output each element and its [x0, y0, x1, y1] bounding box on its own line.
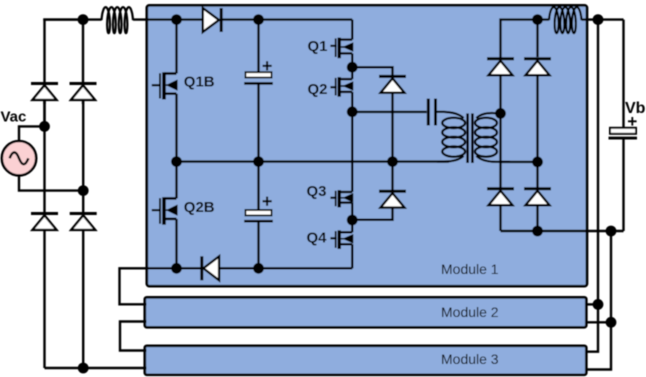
- label Vb: [625, 100, 646, 117]
- wire D2 anode to Q3-Q4 node: [352, 208, 392, 220]
- svg-text:Vac: Vac: [1, 109, 27, 126]
- label Q1B: [184, 74, 215, 91]
- wire Vac top lead: [19, 126, 45, 141]
- node bottom rail / Q2B: [171, 263, 182, 274]
- transformer T1 core: [468, 113, 473, 163]
- label Q2: [308, 81, 328, 98]
- node Vac+ to left leg: [39, 121, 50, 132]
- wire Vac bottom lead: [19, 175, 83, 190]
- wire cap to transformer primary top: [437, 112, 464, 118]
- wire left leg mid: [43, 100, 45, 212]
- diode D9 (output bridge upper-left): [487, 59, 514, 114]
- diode D8 (input bridge lower-right): [70, 214, 97, 369]
- wire Q2 node to resonant cap: [352, 111, 426, 113]
- node mid rail / Q1B-Q2B: [171, 156, 182, 167]
- wire out+ bus (x=598): [586, 20, 598, 352]
- label Q4: [307, 230, 328, 247]
- svg-text:Vb: Vb: [625, 100, 646, 117]
- capacitor C2: [244, 162, 273, 269]
- wire secondary bottom to node B: [500, 161, 538, 163]
- module 2 box: [145, 297, 587, 327]
- wire Q1B source to mid rail: [175, 94, 177, 162]
- transistor Q2: [330, 67, 352, 97]
- node Q1-Q2: [347, 62, 358, 73]
- svg-text:Module 3: Module 3: [441, 351, 499, 367]
- node top rail / right output leg: [532, 14, 543, 25]
- wire module 2 out-: [586, 321, 611, 323]
- capacitor C3 (series/blocking): [428, 99, 435, 126]
- node top rail / C1 leg: [253, 14, 264, 25]
- transistor Q1B: [152, 72, 177, 99]
- wire output bridge top rail: [501, 20, 550, 58]
- wire Q3 source to node: [351, 203, 353, 220]
- capacitor C1: [244, 20, 273, 162]
- svg-text:Q2: Q2: [308, 81, 328, 98]
- node Q2 source / resonant cap: [347, 106, 358, 117]
- svg-text:Module 2: Module 2: [441, 304, 499, 320]
- transistor Q4: [330, 220, 352, 249]
- svg-text:Module 1: Module 1: [441, 261, 499, 277]
- ac source Vac: [2, 141, 36, 175]
- diode D0 (boost series diode): [203, 8, 352, 32]
- wire bottom rail to module 3: [45, 367, 147, 369]
- transistor Q1: [330, 38, 352, 59]
- diode D1 (clamp upper): [379, 76, 406, 161]
- module 3 box: [145, 346, 587, 375]
- node bottom rail / C2: [253, 263, 264, 274]
- wire Q2B source to bottom rail: [175, 219, 177, 268]
- transformer T1 primary winding: [437, 118, 465, 162]
- node out- bus / module1: [606, 226, 617, 237]
- transistor Q3: [330, 190, 352, 207]
- wire Q2 node down to Q3 (crosses mid rail): [351, 112, 353, 192]
- wire battery to module1 out- rail: [622, 140, 624, 232]
- label Vac: [1, 109, 27, 126]
- wire bottom internal rail: [147, 267, 353, 269]
- battery Vb: [609, 117, 638, 140]
- wire Q1B drain: [175, 20, 177, 74]
- wire top rail out of module 1: [582, 18, 624, 20]
- diode D3 (freewheeling, pointing left): [202, 256, 219, 280]
- wire output bridge bottom rail: [501, 230, 624, 232]
- inductor L1 (input): [102, 7, 134, 33]
- wire left bridge leg: [45, 20, 84, 127]
- label Q2B: [184, 199, 215, 216]
- svg-text:Q2B: Q2B: [184, 199, 215, 216]
- wire top rail corner to Q1 drain: [351, 20, 353, 40]
- transistor Q2B: [152, 162, 177, 225]
- wire Q4 source to bottom rail: [351, 244, 353, 268]
- diode D7 (input bridge lower-left): [31, 214, 58, 369]
- node top rail / Q1B leg: [171, 14, 182, 25]
- diode D11 (output bridge upper-right): [524, 20, 551, 162]
- wire module 2 in- to module 3 in+: [120, 322, 147, 351]
- wire node A down (crosses secondary bottom wire): [499, 113, 501, 187]
- svg-text:Q1B: Q1B: [184, 74, 215, 91]
- node top rail / right bridge leg: [78, 14, 89, 25]
- wire Q1 source to node: [351, 53, 353, 67]
- node B secondary bottom: [532, 157, 543, 168]
- wire module 2 out+: [586, 303, 598, 305]
- node out+ bus / top rail: [593, 14, 604, 25]
- diode D6 (input bridge upper-right): [70, 20, 97, 104]
- node mid rail / C1-C2: [253, 156, 264, 167]
- node bottom rail / right leg: [532, 226, 543, 237]
- inductor L2 (output): [549, 7, 582, 33]
- svg-text:Q1: Q1: [308, 38, 328, 55]
- module 1 box: [147, 5, 587, 286]
- transformer T1 secondary winding: [475, 113, 510, 162]
- diode D12 (output bridge lower-right): [524, 162, 551, 231]
- wire battery branch down: [622, 20, 624, 128]
- svg-text:Q3: Q3: [307, 183, 327, 200]
- diode D5 (input bridge upper-left): [31, 82, 58, 104]
- label Q3: [307, 183, 327, 200]
- wire out- bus (x=611): [586, 231, 611, 370]
- wire top rail from bridge to module 1: [43, 18, 203, 20]
- node A secondary top: [495, 108, 506, 119]
- node out- bus / module 2: [606, 317, 617, 328]
- wire module 1 in- to module 2 in+: [120, 268, 147, 304]
- wire right leg mid: [82, 100, 84, 212]
- node Vac- to right leg: [78, 185, 89, 196]
- diode D10 (output bridge lower-left): [487, 189, 514, 231]
- wire Q2 source to node: [351, 92, 353, 112]
- wire Q1-Q2 node to D1: [352, 67, 392, 75]
- wire mid rail: [177, 160, 450, 162]
- node bottom rail / right leg: [78, 363, 89, 374]
- svg-text:Q4: Q4: [307, 230, 328, 247]
- diode D2 (clamp lower): [379, 162, 406, 208]
- node Q3-Q4: [347, 215, 358, 226]
- node mid rail / D1-D2: [387, 156, 398, 167]
- node out+ bus / module 2: [593, 299, 604, 310]
- label Q1: [308, 38, 328, 55]
